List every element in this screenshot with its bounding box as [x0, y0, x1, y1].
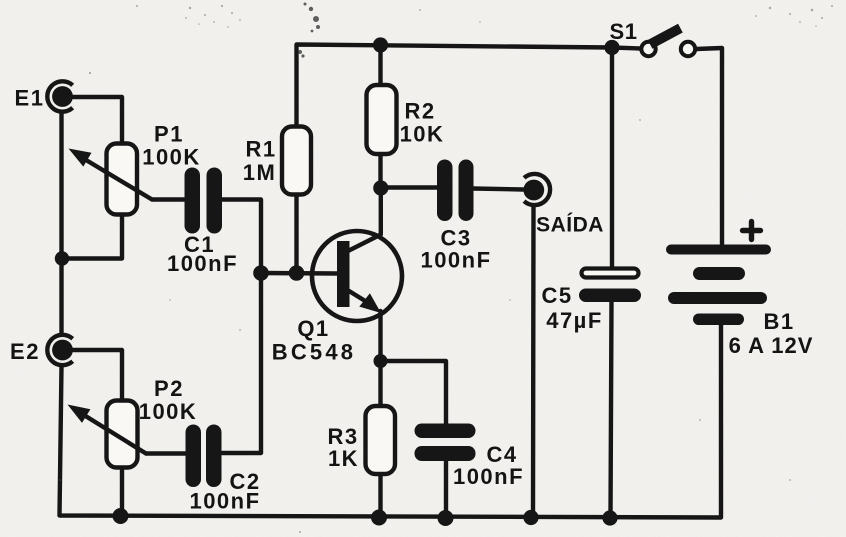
svg-text:100K: 100K	[139, 399, 198, 424]
svg-text:E2: E2	[10, 339, 40, 364]
svg-text:1M: 1M	[243, 160, 277, 185]
svg-text:47µF: 47µF	[546, 308, 603, 333]
svg-text:Q1: Q1	[297, 316, 329, 341]
svg-text:E1: E1	[15, 86, 45, 111]
svg-text:BC548: BC548	[272, 340, 356, 365]
svg-text:6 A 12V: 6 A 12V	[729, 333, 814, 358]
svg-text:P1: P1	[154, 122, 184, 147]
svg-text:100nF: 100nF	[420, 248, 491, 273]
svg-text:R2: R2	[404, 99, 435, 124]
svg-text:100K: 100K	[142, 145, 201, 170]
svg-text:R1: R1	[245, 137, 276, 162]
svg-text:100nF: 100nF	[453, 464, 524, 489]
svg-text:P2: P2	[154, 376, 184, 401]
svg-text:100nF: 100nF	[167, 251, 238, 276]
svg-text:B1: B1	[763, 309, 794, 334]
svg-text:C5: C5	[541, 283, 572, 308]
svg-text:100nF: 100nF	[189, 489, 260, 514]
svg-text:10K: 10K	[400, 122, 445, 147]
svg-text:S1: S1	[610, 19, 638, 44]
svg-text:1K: 1K	[328, 446, 359, 471]
svg-text:SAÍDA: SAÍDA	[536, 214, 604, 237]
